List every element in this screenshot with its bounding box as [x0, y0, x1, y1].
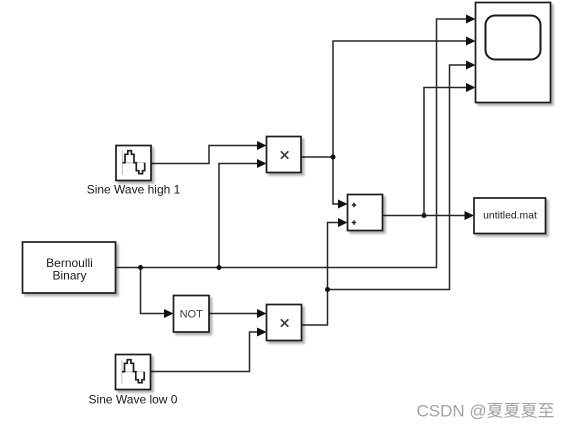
svg-text:Sine Wave low 0: Sine Wave low 0 [89, 393, 178, 407]
svg-text:Binary: Binary [52, 269, 86, 283]
svg-text:CSDN @: CSDN @ [417, 402, 487, 421]
svg-text:Sine Wave high 1: Sine Wave high 1 [87, 183, 181, 197]
svg-text:NOT: NOT [180, 309, 204, 321]
svg-text:untitled.mat: untitled.mat [483, 211, 537, 222]
